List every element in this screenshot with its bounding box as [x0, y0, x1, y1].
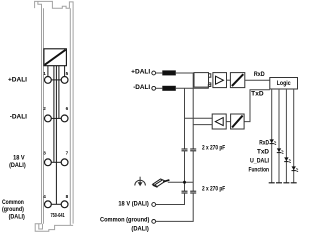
choke L2 — [162, 86, 176, 91]
svg-text:(ground): (ground) — [2, 206, 24, 213]
wire choke to input box (jogs up under box into lower tab) — [176, 85, 211, 89]
module housing outline 750-641 — [35, 1, 74, 231]
capacitor row 2 on line B — [190, 191, 196, 193]
capacitor row 2 on line A — [182, 191, 188, 193]
svg-text:(DALI): (DALI) — [9, 213, 25, 220]
svg-text:-DALI: -DALI — [133, 84, 150, 91]
capacitor row 1 on line A — [182, 149, 188, 151]
label box with diagonal stripe — [44, 49, 67, 66]
LED D2 — [277, 148, 284, 153]
TxD wire from Logic down to OC2 — [244, 90, 270, 122]
tap wire from line B to U2 — [193, 124, 212, 126]
svg-text:2: 2 — [43, 106, 46, 111]
Logic block U4 — [270, 78, 298, 90]
junction dot — [183, 181, 186, 184]
chassis line to rail — [168, 181, 193, 183]
net line A from -DALI down to capacitors — [184, 88, 186, 149]
wire 18 V to line A — [156, 193, 185, 205]
svg-text:4: 4 — [43, 194, 46, 199]
internal wires from label box to terminals — [48, 66, 65, 205]
terminal row 4: contacts 4 and 8 — [45, 201, 69, 208]
svg-text:TxD: TxD — [257, 149, 270, 155]
LED line 4 (Function) — [293, 89, 295, 183]
net line B from +DALI down to capacitors — [192, 73, 194, 149]
schematic terminal +DALI — [152, 71, 156, 75]
terminal 18 V — [152, 203, 156, 207]
wire Common to line B — [156, 193, 194, 221]
svg-text:1: 1 — [43, 71, 46, 76]
chassis net segment of line A — [184, 151, 186, 191]
svg-text:18 V: 18 V — [13, 155, 25, 162]
svg-text:8: 8 — [66, 194, 69, 199]
svg-text:RxD: RxD — [259, 140, 269, 146]
svg-text:2 x 270 pF: 2 x 270 pF — [202, 186, 225, 192]
svg-text:750-641: 750-641 — [51, 213, 65, 219]
terminal Common — [152, 220, 156, 224]
wire +DALI to choke — [156, 72, 163, 74]
terminal row 2: contacts 2 and 6 — [45, 115, 69, 122]
svg-text:Common (ground): Common (ground) — [100, 217, 149, 224]
svg-text:Function: Function — [249, 167, 270, 173]
LED D1 — [270, 139, 277, 144]
LED line 2 (TxD) — [278, 89, 280, 183]
RxD wire to Logic — [245, 79, 270, 81]
svg-text:+DALI: +DALI — [131, 69, 150, 76]
svg-text:(DALI): (DALI) — [9, 162, 26, 169]
schematic terminal -DALI — [152, 86, 156, 90]
svg-text:Common: Common — [2, 199, 24, 206]
LED line 1 (RxD) — [271, 89, 273, 183]
svg-text:6: 6 — [66, 106, 69, 111]
svg-text:Logic: Logic — [277, 81, 292, 87]
terminal row 1: contacts 1 and 5 — [45, 77, 69, 84]
input interface box U3 — [194, 73, 211, 88]
DIN rail plate symbol — [153, 179, 170, 188]
LED D4 — [292, 166, 299, 171]
svg-text:7: 7 — [66, 150, 69, 155]
receiver driver U1 (triangle) — [213, 73, 227, 88]
transmit driver U2 (triangle left) — [212, 114, 226, 129]
svg-text:-DALI: -DALI — [10, 114, 27, 121]
wire -DALI to choke — [156, 87, 163, 89]
optocoupler OC1 — [230, 73, 244, 88]
svg-text:2 x 270 pF: 2 x 270 pF — [202, 146, 225, 152]
wire U1 to OC1 — [227, 79, 231, 81]
choke L1 — [162, 70, 176, 75]
svg-text:3: 3 — [43, 150, 46, 155]
optocoupler OC2 — [231, 114, 245, 129]
chassis net segment of line B — [192, 151, 194, 191]
svg-text:+DALI: +DALI — [8, 77, 27, 84]
svg-text:(DALI): (DALI) — [131, 225, 148, 232]
svg-text:TxD: TxD — [251, 90, 264, 97]
rail contact symbol (arc with arrow) — [135, 177, 146, 186]
wire choke to input box, node taps — [176, 72, 194, 74]
capacitor row 1 on line B — [190, 149, 196, 151]
LED line 3 (U_DALI) — [285, 89, 287, 183]
wire OC2 to U2 — [226, 121, 230, 123]
svg-text:5: 5 — [66, 71, 69, 76]
LED D3 — [284, 157, 291, 162]
svg-text:U_DALI: U_DALI — [250, 158, 269, 164]
tap wire from line A to U2 — [185, 117, 213, 119]
terminal row 3: contacts 3 and 7 — [45, 159, 69, 166]
svg-text:RxD: RxD — [254, 71, 265, 78]
svg-text:18 V (DALI): 18 V (DALI) — [118, 200, 148, 207]
